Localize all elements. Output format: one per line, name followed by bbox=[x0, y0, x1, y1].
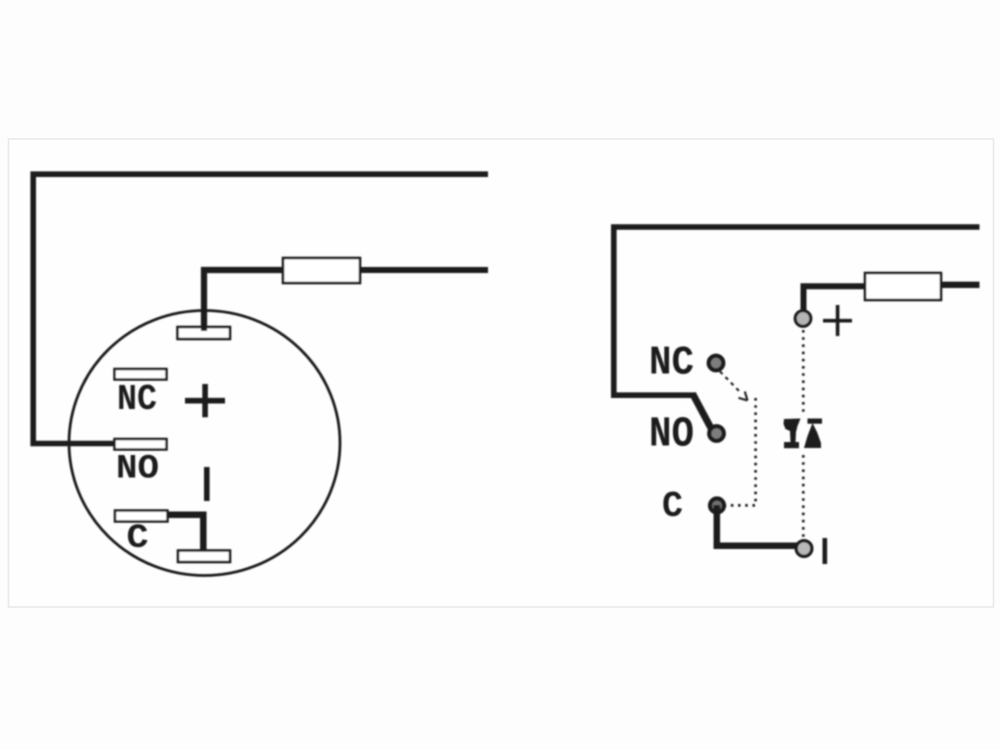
wire W6: C contact down and right to LED- node bbox=[717, 505, 797, 546]
wire W4: C terminal right then down to LED- terminal bbox=[167, 515, 203, 552]
wire W5: supply line, right schematic, down to NO contact bbox=[614, 227, 980, 395]
LED D1 leads (dotted) bbox=[802, 330, 805, 538]
terminal LED+ (top) bbox=[178, 327, 231, 339]
wire W3: resistor R1 to right bbox=[360, 267, 488, 273]
svg-text:NO: NO bbox=[116, 450, 159, 489]
switch body rear view (circle) bbox=[69, 311, 340, 576]
terminal C bbox=[115, 511, 168, 522]
svg-text:NO: NO bbox=[649, 411, 694, 459]
node NC bbox=[709, 356, 724, 371]
wire W5a: pole arm into NO contact bbox=[693, 394, 713, 432]
node LED- bbox=[796, 541, 812, 557]
actuator linkage (dotted) bbox=[726, 398, 756, 505]
LED D1 symbol bbox=[784, 419, 823, 449]
label + (LED anode mark, left) bbox=[185, 384, 225, 417]
svg-text:NC: NC bbox=[649, 341, 694, 387]
resistor R1 bbox=[283, 258, 360, 283]
node LED+ bbox=[795, 311, 811, 327]
svg-text:NC: NC bbox=[117, 379, 157, 420]
svg-text:C: C bbox=[662, 486, 683, 527]
terminal LED- (bottom) bbox=[178, 551, 230, 563]
wire W2: LED+ terminal up and right to resistor R1 bbox=[204, 270, 283, 331]
resistor R2 bbox=[865, 273, 941, 300]
terminal NC bbox=[115, 369, 167, 380]
wire W7: LED+ node up and right to resistor R2 bbox=[804, 286, 867, 312]
node C bbox=[710, 499, 724, 513]
label - (LED cathode mark, vertical bar, left) bbox=[204, 467, 210, 501]
wire W8: resistor R2 to right edge bbox=[941, 282, 980, 288]
node NO bbox=[709, 426, 724, 441]
switch actuator throw (dashed with arrowhead) bbox=[720, 372, 748, 401]
label + (right) bbox=[823, 305, 852, 336]
svg-text:C: C bbox=[127, 520, 149, 558]
wire W1: supply line down-left to NO terminal bbox=[33, 174, 488, 443]
terminal NO bbox=[115, 439, 167, 450]
label - (vertical bar, right) bbox=[823, 538, 828, 564]
